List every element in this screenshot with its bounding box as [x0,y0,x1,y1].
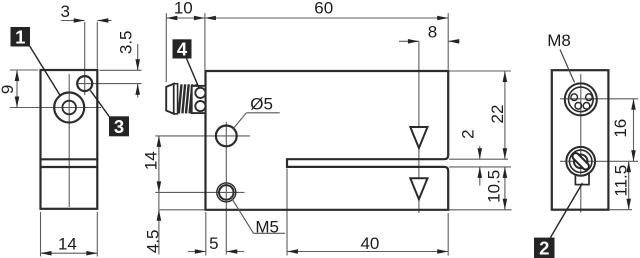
svg-text:4: 4 [177,38,188,59]
svg-text:M8: M8 [547,31,571,50]
svg-text:2: 2 [459,129,478,138]
svg-text:5: 5 [209,234,218,253]
svg-text:40: 40 [360,234,379,253]
svg-text:14: 14 [142,151,161,170]
svg-text:22: 22 [488,105,507,124]
svg-text:3: 3 [114,116,124,137]
svg-text:10.5: 10.5 [484,170,503,203]
svg-text:14: 14 [58,235,77,254]
svg-text:Ø5: Ø5 [250,95,273,114]
svg-text:9: 9 [0,85,17,94]
svg-text:16: 16 [611,119,630,138]
svg-text:3: 3 [60,2,69,21]
svg-text:3.5: 3.5 [116,30,135,54]
svg-text:60: 60 [314,0,333,18]
svg-text:2: 2 [539,237,549,258]
svg-text:10: 10 [174,0,193,18]
svg-text:11.5: 11.5 [611,165,630,197]
svg-text:8: 8 [428,22,437,41]
svg-text:4.5: 4.5 [144,229,163,253]
svg-text:1: 1 [15,26,25,47]
